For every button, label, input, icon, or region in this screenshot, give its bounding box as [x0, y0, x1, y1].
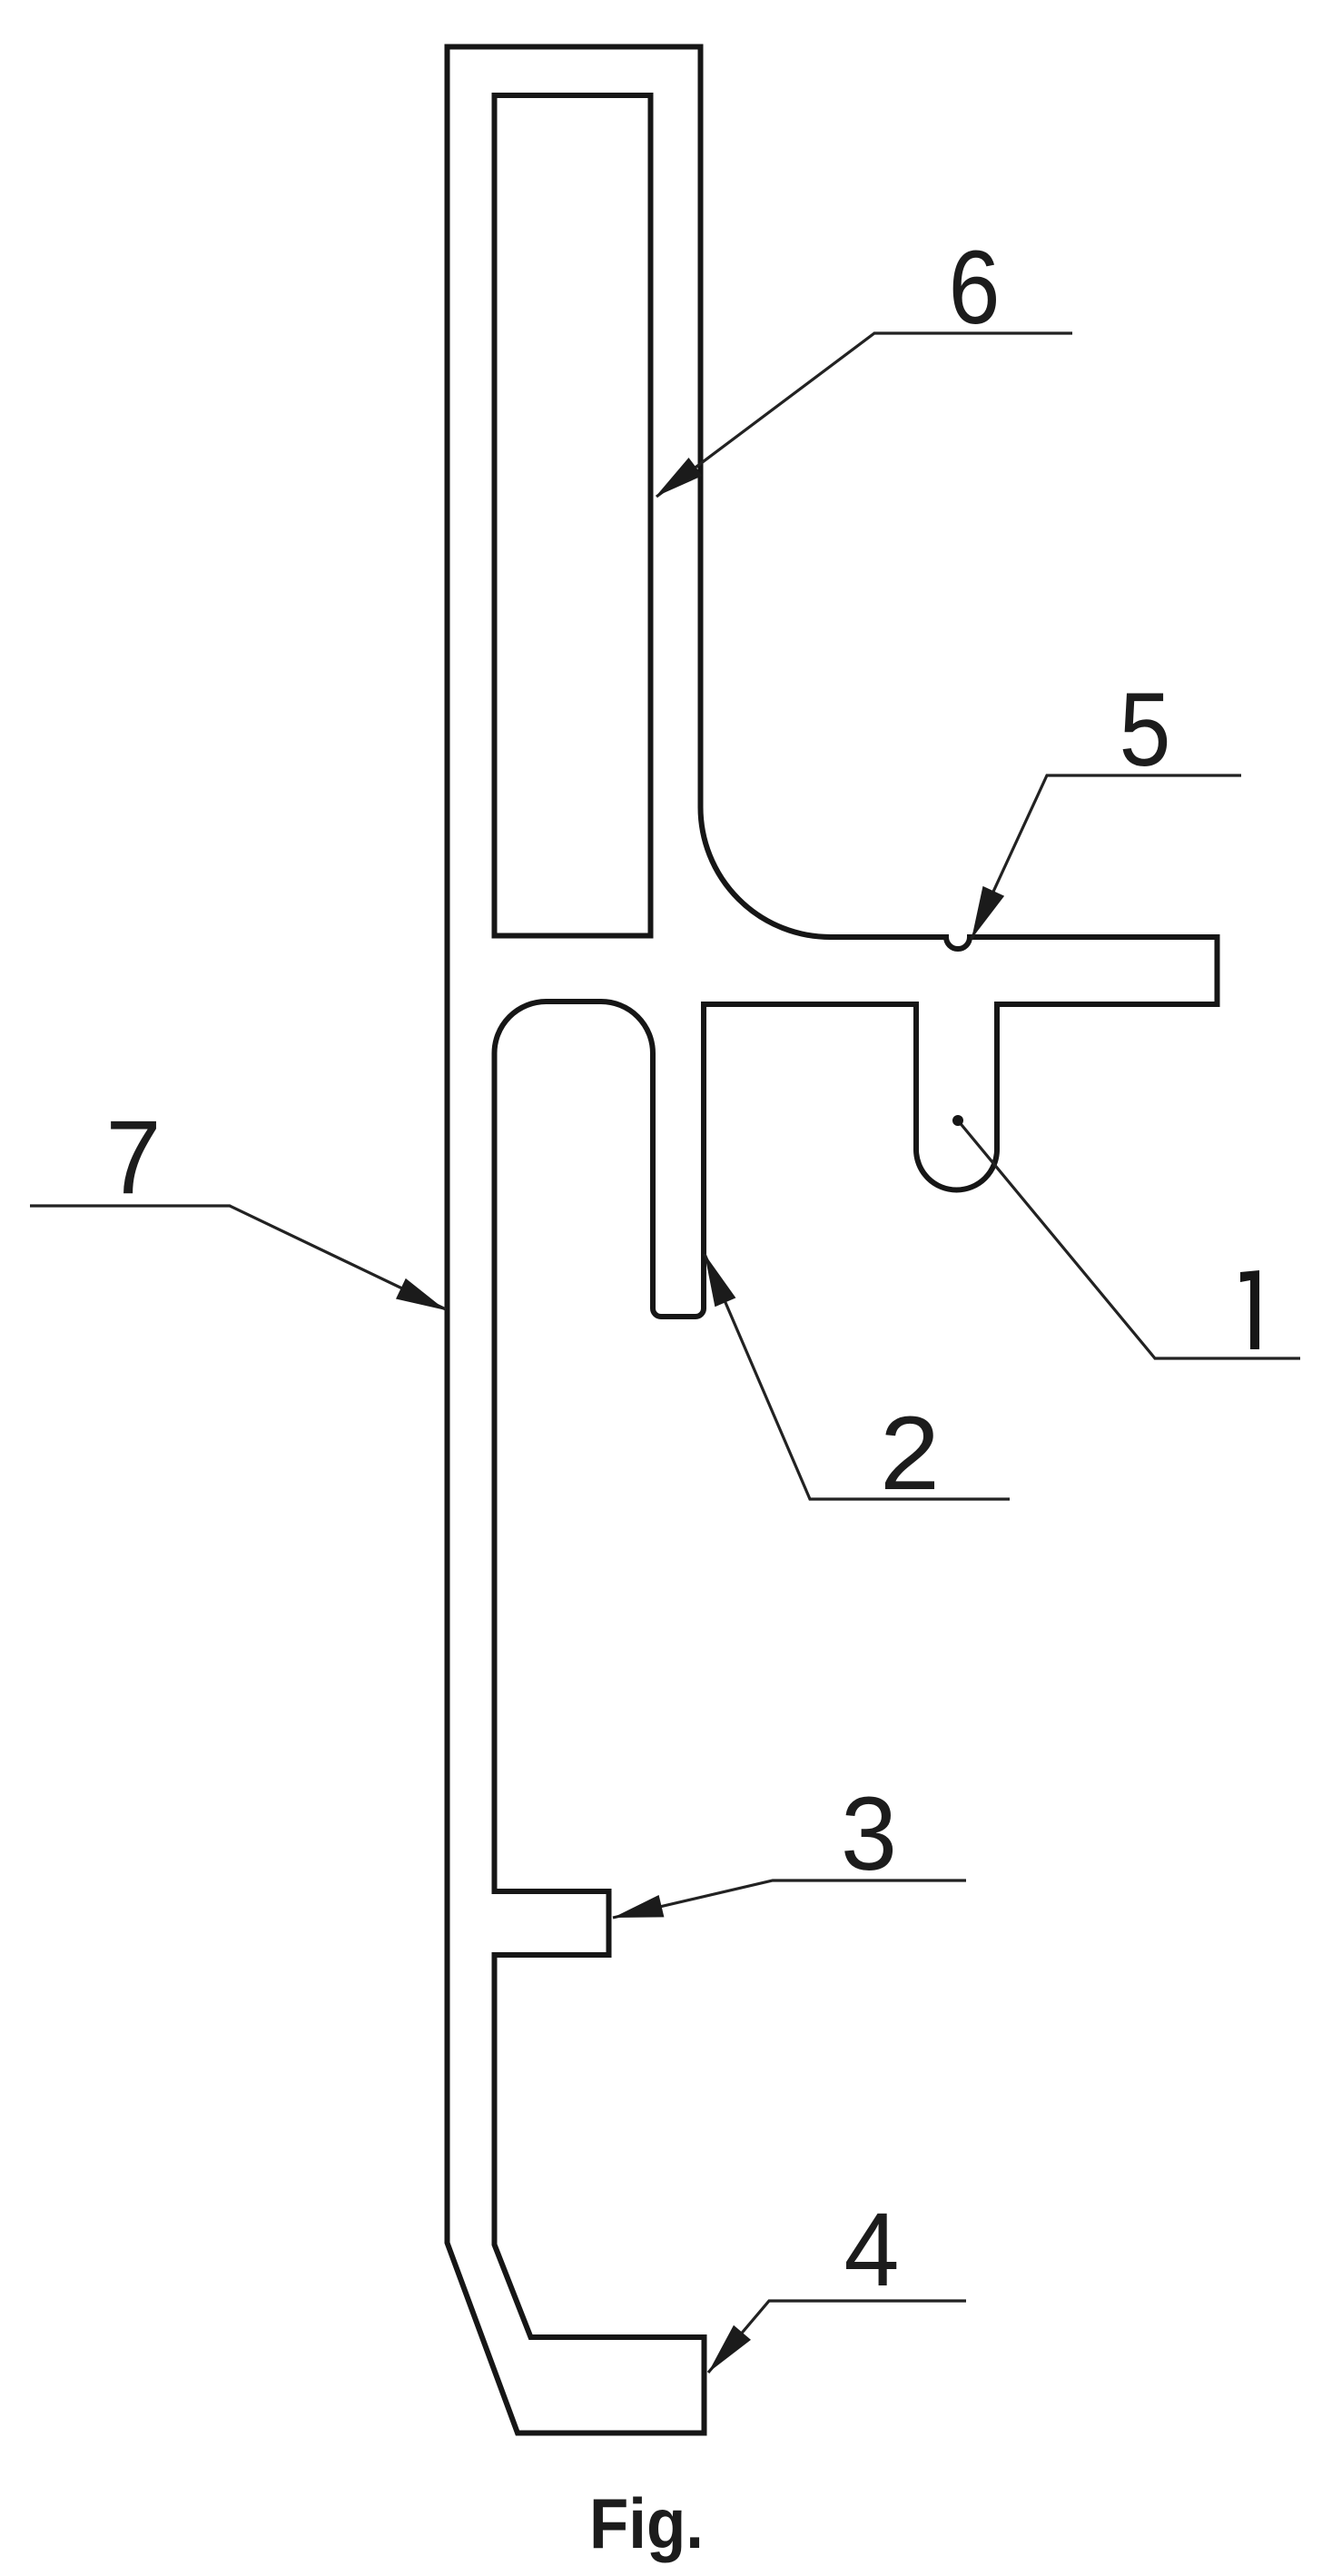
- leader 3: [613, 1880, 966, 1918]
- profile outline: extruded section main contour: [448, 47, 1218, 2433]
- arrowhead 6: [656, 458, 703, 497]
- leader 6: [656, 333, 1072, 497]
- svg-text:6: 6: [949, 230, 1001, 346]
- svg-text:4: 4: [844, 2192, 900, 2308]
- leader 2: [705, 1254, 1010, 1499]
- arrowhead 3: [613, 1895, 664, 1918]
- arrowhead 2: [705, 1254, 735, 1307]
- leader 4: [708, 2301, 966, 2373]
- svg-text:2: 2: [880, 1396, 940, 1512]
- leader 1 reference dot: [952, 1115, 963, 1126]
- inner hollow channel of top tube: [495, 95, 651, 936]
- label 1: [1240, 1270, 1259, 1349]
- leader 7: [30, 1206, 446, 1309]
- svg-text:7: 7: [106, 1100, 162, 1216]
- svg-text:Fig.: Fig.: [589, 2483, 704, 2563]
- leader 1: [958, 1120, 1300, 1358]
- svg-text:5: 5: [1120, 672, 1171, 788]
- arrowhead 7: [396, 1278, 446, 1310]
- svg-text:3: 3: [841, 1776, 897, 1892]
- arrowhead 4: [708, 2325, 751, 2373]
- leader 5: [972, 775, 1241, 939]
- arrowhead 5: [972, 886, 1004, 939]
